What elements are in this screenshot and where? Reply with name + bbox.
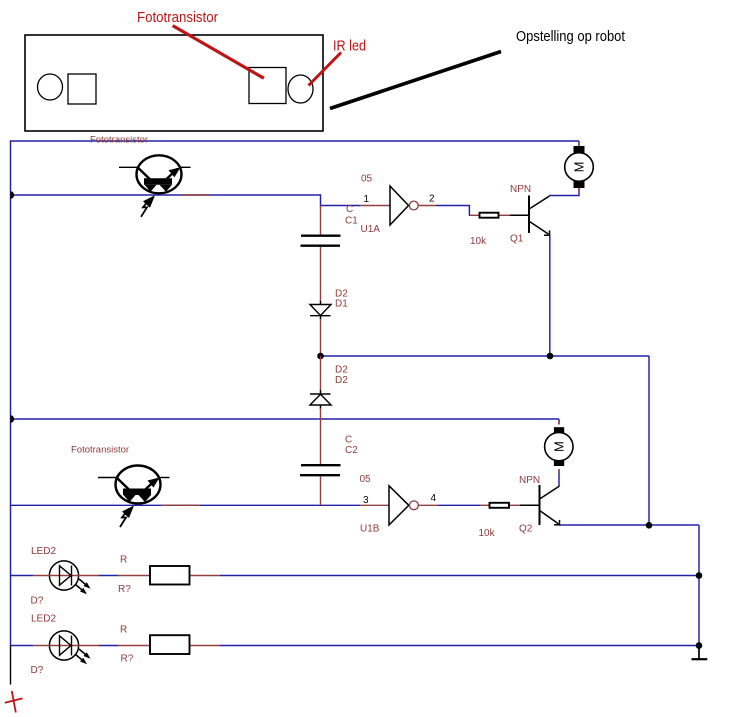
wire phototransistor Q3 row <box>11 194 321 196</box>
wire Q1 emitter vertical <box>549 235 551 357</box>
diode D1 (pointing down) <box>310 301 331 320</box>
wire resistor R1 right lead <box>499 214 511 216</box>
capacitor C2 <box>300 465 341 475</box>
svg-text:Opstelling op robot: Opstelling op robot <box>516 28 626 45</box>
junction dot Q1 emitter / middle bus <box>547 353 554 360</box>
wire Q4 emitter red segment <box>161 504 200 506</box>
svg-text:D2: D2 <box>335 365 348 376</box>
svg-text:Q1: Q1 <box>510 234 524 245</box>
ground symbol <box>692 646 708 660</box>
svg-text:LED2: LED2 <box>31 614 56 625</box>
wire bus to motor M2 <box>11 418 560 420</box>
svg-text:Q2: Q2 <box>519 524 533 535</box>
wire motor M2 bottom lead <box>558 470 560 487</box>
svg-text:C: C <box>346 204 353 215</box>
wire LED row2 resistor right lead <box>190 645 221 647</box>
svg-text:R?: R? <box>121 654 134 665</box>
junction dot x649 / emitter row <box>646 522 653 529</box>
wire motor M1 terminal red stubs <box>578 143 580 147</box>
svg-text:D?: D? <box>31 665 44 676</box>
wire bottom stub (black) <box>10 646 12 685</box>
wire middle bus <box>321 355 650 357</box>
wire motor M1 top lead <box>578 141 580 147</box>
no-connect X mark <box>5 691 23 713</box>
svg-text:3: 3 <box>363 495 369 506</box>
svg-text:R: R <box>120 625 127 636</box>
wire top supply bus <box>10 140 579 142</box>
wire node to D2 lead <box>320 356 322 390</box>
svg-text:R?: R? <box>118 584 131 595</box>
svg-text:05: 05 <box>360 474 372 485</box>
op-amp inverter U1A <box>390 186 418 225</box>
annotation pointer line to right square <box>173 26 264 79</box>
svg-text:LED2: LED2 <box>31 546 56 557</box>
wire Q1 base lead <box>510 214 529 216</box>
LED D? row1 <box>33 561 150 594</box>
svg-text:10k: 10k <box>479 528 496 539</box>
wire resistor R2 left lead <box>480 504 490 506</box>
svg-text:4: 4 <box>431 493 437 504</box>
wire U1A output jog to resistor <box>436 206 470 216</box>
svg-text:D1: D1 <box>335 299 348 310</box>
svg-text:IR led: IR led <box>333 38 366 55</box>
wire LED row1 left <box>11 575 34 577</box>
motor M2 <box>545 427 573 466</box>
wire motor M1 bottom lead to Q1 collector <box>549 188 579 196</box>
resistor R1 10k <box>480 213 499 218</box>
wire resistor R1 left lead <box>469 214 480 216</box>
wire C1 to D1 lead <box>320 247 322 301</box>
junction dot x699 / LED row1 <box>696 572 703 579</box>
svg-text:D2: D2 <box>335 375 348 386</box>
phototransistor Q3 (top) <box>119 155 191 217</box>
svg-text:Fototransistor: Fototransistor <box>71 445 129 456</box>
svg-text:C1: C1 <box>345 216 358 227</box>
wire C1 top lead <box>320 206 322 236</box>
svg-text:NPN: NPN <box>510 184 531 195</box>
capacitor C1 <box>301 236 341 246</box>
svg-text:U1A: U1A <box>361 224 381 235</box>
wire right vertical x649 <box>648 356 650 525</box>
wire motor M2 terminal red stubs <box>558 420 560 425</box>
diode D2 (pointing up) <box>310 390 331 409</box>
board right square (fototransistor drawing) <box>249 68 286 104</box>
wire D2 to C2 lead <box>320 408 322 465</box>
wire resistor R2 right lead <box>509 504 521 506</box>
board left circle (IR led drawing) <box>38 74 63 100</box>
wire phototransistor Q4 row <box>11 504 361 506</box>
svg-text:Fototransistor: Fototransistor <box>90 135 148 146</box>
wire to resistor R2 <box>438 504 481 506</box>
resistor R2 10k <box>490 503 510 508</box>
svg-text:Fototransistor: Fototransistor <box>137 9 218 26</box>
svg-text:C: C <box>345 435 352 446</box>
svg-text:C2: C2 <box>345 445 358 456</box>
motor M1 <box>565 146 594 188</box>
board right circle (IR led drawing) <box>288 75 313 103</box>
junction node dot D1/D2/bus <box>317 353 324 360</box>
wire LED row1 right <box>220 575 699 577</box>
wire U1A input lead (pin 1) <box>360 205 390 207</box>
op-amp inverter U1B <box>389 486 418 525</box>
svg-text:R: R <box>120 555 127 566</box>
phototransistor Q4 (bottom) <box>98 466 170 528</box>
svg-text:D?: D? <box>31 596 44 607</box>
wire U1B output lead (pin 4) <box>418 504 438 506</box>
wire U1A output lead (pin 2) <box>418 205 436 207</box>
wire LED row2 right <box>220 645 699 647</box>
annotation pointer line to right circle <box>309 53 342 86</box>
wire LED row1 resistor right lead <box>190 575 221 577</box>
svg-text:M: M <box>572 162 587 173</box>
transistor Q2 NPN <box>540 485 561 525</box>
resistor R? row1 <box>150 566 190 585</box>
board left square (fototransistor drawing) <box>68 74 96 104</box>
wire right vertical x699 <box>698 525 700 646</box>
LED D? row2 <box>33 631 150 664</box>
wire Q2 base lead <box>520 504 540 506</box>
wire Q3 emitter red segment <box>181 194 210 196</box>
half junction dot left rail y419 <box>11 415 15 422</box>
wire corner down to U1A input <box>321 194 361 205</box>
svg-text:NPN: NPN <box>519 475 540 486</box>
svg-text:U1B: U1B <box>360 524 380 535</box>
wire LED row2 left <box>11 645 34 647</box>
annotation pointer line (black) to box <box>330 52 501 109</box>
sensor board outline box <box>25 35 323 131</box>
wire Q2 emitter row <box>560 524 700 526</box>
wire D1 to node lead <box>320 319 322 356</box>
wire C2 bottom lead <box>320 477 322 506</box>
svg-text:M: M <box>551 441 566 452</box>
junction dot x699 / LED row2 <box>696 642 703 649</box>
transistor Q1 NPN <box>529 196 550 236</box>
svg-text:05: 05 <box>361 174 373 185</box>
svg-text:1: 1 <box>364 194 370 205</box>
svg-text:10k: 10k <box>470 236 487 247</box>
wire left vertical rail <box>10 141 12 646</box>
half junction dot left rail y195 <box>11 191 15 198</box>
wire U1B input lead (pin 3) <box>360 504 390 506</box>
resistor R? row2 <box>150 635 190 654</box>
svg-text:2: 2 <box>429 194 435 205</box>
wire motor M2 top lead <box>558 419 560 425</box>
